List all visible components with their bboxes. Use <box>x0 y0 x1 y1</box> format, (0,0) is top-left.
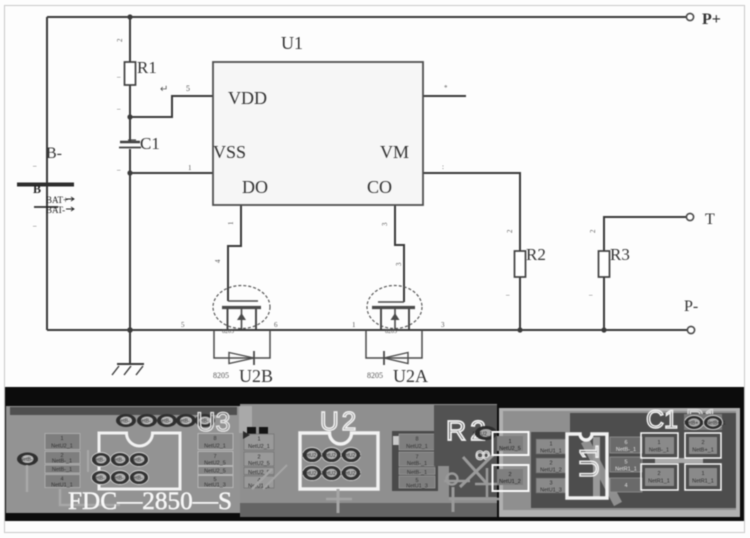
svg-text:1: 1 <box>549 442 552 448</box>
svg-text:NetU1_2: NetU1_2 <box>499 479 521 485</box>
svg-text:1: 1 <box>227 221 235 225</box>
svg-text:NetB+_1: NetB+_1 <box>706 421 726 427</box>
svg-text:–: – <box>588 291 593 299</box>
svg-text:2: 2 <box>506 229 514 233</box>
svg-text:NetU2_1: NetU2_1 <box>51 444 73 450</box>
svg-text:NetU2_1: NetU2_1 <box>322 471 342 477</box>
svg-text:T: T <box>705 211 715 228</box>
svg-text:NetU1_3: NetU1_3 <box>406 484 428 490</box>
svg-text:NetU2_5: NetU2_5 <box>204 461 226 467</box>
svg-text:BAT-: BAT- <box>46 205 65 215</box>
svg-text:2: 2 <box>701 440 704 446</box>
svg-text:6: 6 <box>274 321 278 329</box>
svg-text:NetU2_5: NetU2_5 <box>341 471 361 477</box>
svg-text:NetU2_1: NetU2_1 <box>406 444 428 450</box>
svg-text:U2: U2 <box>320 406 359 436</box>
svg-text:NetR1_1: NetR1_1 <box>648 479 670 485</box>
svg-text:8: 8 <box>213 436 216 442</box>
svg-text:–: – <box>116 166 121 174</box>
svg-text:NetB-_1: NetB-_1 <box>92 458 111 464</box>
svg-text:U2B: U2B <box>239 366 273 386</box>
svg-text:U1: U1 <box>574 445 604 478</box>
svg-text:NetB-_1: NetB-_1 <box>111 458 130 464</box>
svg-text:NetB-_1: NetB-_1 <box>177 419 196 425</box>
svg-text:NetU2_1: NetU2_1 <box>248 444 270 450</box>
svg-text:FDC—2850—S: FDC—2850—S <box>68 488 232 515</box>
svg-text:B-: B- <box>46 145 62 162</box>
svg-text:NetU2_5: NetU2_5 <box>499 446 521 452</box>
svg-text:VSS: VSS <box>213 142 246 162</box>
svg-text:2: 2 <box>116 38 124 42</box>
svg-text:4: 4 <box>624 483 627 489</box>
svg-text:1: 1 <box>60 436 63 442</box>
svg-text:*: * <box>444 84 448 92</box>
svg-text:NetB-_1: NetB-_1 <box>130 458 149 464</box>
svg-text:–: – <box>32 162 37 170</box>
svg-text:–: – <box>116 105 121 113</box>
svg-text:C1: C1 <box>646 406 678 434</box>
svg-text:C1: C1 <box>140 134 160 153</box>
svg-text:NetB-_1: NetB-_1 <box>117 419 136 425</box>
svg-text:BAT+: BAT+ <box>46 195 68 205</box>
svg-text:VM: VM <box>380 142 409 162</box>
svg-text:3: 3 <box>395 262 403 266</box>
svg-text:↵: ↵ <box>160 84 168 95</box>
svg-text:NetU2_1: NetU2_1 <box>322 453 342 459</box>
svg-text:B: B <box>33 182 41 196</box>
svg-text:R3: R3 <box>610 245 630 264</box>
svg-text:R2: R2 <box>526 245 546 264</box>
svg-text:CO: CO <box>367 177 392 197</box>
svg-text:–: – <box>32 222 37 230</box>
svg-text:8205: 8205 <box>213 371 229 380</box>
svg-text:NetB-_1: NetB-_1 <box>130 476 149 482</box>
svg-text:3: 3 <box>441 321 445 329</box>
svg-text:NetB-_1: NetB-_1 <box>407 461 427 467</box>
svg-text:P-: P- <box>684 298 698 315</box>
svg-text:NetB-_1: NetB-_1 <box>649 448 669 454</box>
svg-text:NetB-_1: NetB-_1 <box>616 447 636 453</box>
svg-text:VDD: VDD <box>228 88 267 108</box>
svg-text:1: 1 <box>508 439 511 445</box>
svg-text:8205: 8205 <box>385 329 397 335</box>
svg-text:DO: DO <box>242 177 268 197</box>
svg-text:1: 1 <box>657 440 660 446</box>
svg-text:3: 3 <box>549 481 552 487</box>
svg-text:2: 2 <box>657 471 660 477</box>
svg-text:NetU2_5: NetU2_5 <box>204 469 226 475</box>
svg-text:R1: R1 <box>137 58 157 77</box>
svg-text:NetB-_1: NetB-_1 <box>52 459 72 465</box>
svg-text:NetB+_1: NetB+_1 <box>684 421 704 427</box>
svg-text:NetB+_1: NetB+_1 <box>692 448 714 454</box>
svg-text:U1: U1 <box>281 33 303 53</box>
svg-text:P+: P+ <box>702 11 721 28</box>
svg-text:1: 1 <box>701 471 704 477</box>
svg-text:3: 3 <box>381 222 389 226</box>
svg-text:5: 5 <box>186 84 190 93</box>
svg-text:8205: 8205 <box>367 371 383 380</box>
svg-text:–: – <box>505 291 510 299</box>
svg-text:NetU1_1: NetU1_1 <box>540 449 562 455</box>
svg-text:7: 7 <box>213 454 216 460</box>
svg-text:2: 2 <box>257 455 260 461</box>
svg-text:2: 2 <box>549 461 552 467</box>
svg-text:8: 8 <box>415 437 418 443</box>
svg-text:2: 2 <box>589 229 597 233</box>
svg-text:1: 1 <box>352 321 356 329</box>
svg-text:2: 2 <box>508 472 511 478</box>
svg-text:7: 7 <box>415 455 418 461</box>
svg-text:NetU1_2: NetU1_2 <box>540 468 562 474</box>
svg-text:NetR1_1: NetR1_1 <box>692 479 714 485</box>
svg-text:1: 1 <box>257 437 260 443</box>
svg-text:NetB-_1: NetB-_1 <box>92 476 111 482</box>
svg-text:NetB-_1: NetB-_1 <box>111 476 130 482</box>
svg-text:NetU2_1: NetU2_1 <box>204 444 226 450</box>
svg-text:4: 4 <box>214 259 222 263</box>
svg-text:5: 5 <box>624 460 627 466</box>
svg-text:NetB-_1: NetB-_1 <box>20 457 39 463</box>
svg-text:6: 6 <box>624 440 627 446</box>
svg-text:NetU2_5: NetU2_5 <box>302 471 322 477</box>
svg-text:–: – <box>116 73 121 81</box>
svg-text:NetR1_1: NetR1_1 <box>615 467 637 473</box>
svg-text::: : <box>442 163 444 171</box>
svg-text:U2A: U2A <box>393 366 428 386</box>
svg-text:NetB-_1: NetB-_1 <box>407 470 427 476</box>
svg-text:NetU2_5: NetU2_5 <box>248 461 270 467</box>
svg-text:NetU2_5: NetU2_5 <box>302 453 322 459</box>
svg-text:NetB-_1: NetB-_1 <box>138 419 157 425</box>
svg-text:NetU1_3: NetU1_3 <box>540 488 562 494</box>
svg-text:5: 5 <box>181 321 185 329</box>
svg-text:NetB-_1: NetB-_1 <box>158 419 177 425</box>
svg-text:NetB-_1: NetB-_1 <box>52 467 72 473</box>
svg-text:U3: U3 <box>196 407 231 437</box>
svg-text:1: 1 <box>188 164 192 172</box>
svg-text:NetU2_5: NetU2_5 <box>341 453 361 459</box>
svg-text:8205: 8205 <box>222 329 234 335</box>
